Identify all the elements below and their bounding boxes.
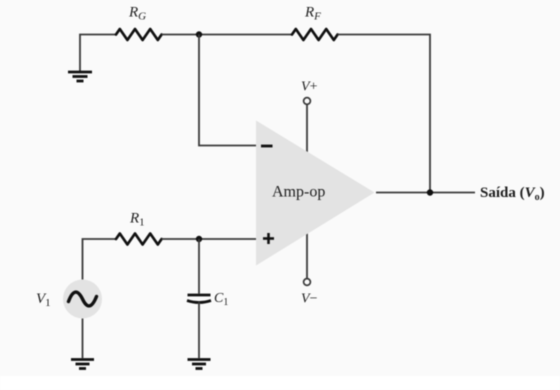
wire (80, 35, 116, 72)
wire (198, 239, 200, 294)
wire (376, 192, 475, 194)
svg-text:Amp-op: Amp-op (272, 184, 325, 201)
svg-text:V−: V− (301, 292, 318, 307)
wire (199, 35, 256, 146)
wire (162, 238, 256, 240)
wire (83, 239, 117, 280)
capacitor C1 (187, 291, 228, 308)
wire (338, 35, 430, 193)
resistor R1 (116, 211, 162, 245)
ground (188, 360, 211, 369)
wire (82, 319, 84, 359)
wire (162, 34, 292, 36)
ground (68, 72, 92, 81)
node B (427, 189, 433, 195)
resistor RF (292, 5, 338, 41)
resistor RG (116, 5, 162, 41)
op-amp U1 (256, 121, 375, 266)
wire (306, 105, 308, 153)
ground (71, 360, 94, 369)
svg-text:V+: V+ (301, 80, 318, 95)
terminal V+ (301, 80, 318, 105)
wire (306, 234, 308, 279)
terminal V- (301, 279, 318, 307)
node A (196, 31, 202, 37)
wire (198, 302, 200, 358)
source V1 (36, 280, 102, 319)
node C (196, 236, 202, 242)
